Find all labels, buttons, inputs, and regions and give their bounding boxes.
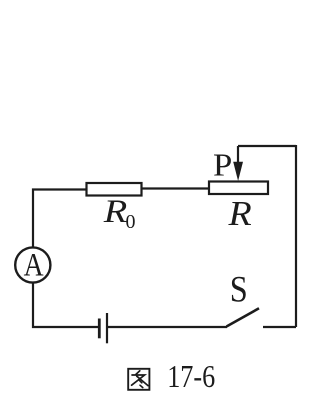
wire battery to switch	[108, 326, 227, 328]
resistor R0	[87, 183, 142, 196]
svg-text:S: S	[230, 270, 248, 311]
switch right contact	[263, 326, 296, 328]
wiper arrow P	[233, 146, 243, 181]
svg-text:R: R	[227, 194, 251, 233]
wire between R0 and R	[142, 187, 210, 189]
switch S blade	[227, 308, 260, 326]
rheostat R	[209, 182, 268, 195]
svg-text:A: A	[24, 247, 44, 283]
wire wiper to right vertical	[238, 145, 296, 147]
svg-text:R: R	[103, 194, 128, 230]
svg-text:P: P	[213, 147, 232, 182]
battery cell	[99, 313, 107, 343]
caption glyph 图	[128, 369, 149, 390]
wire right vertical	[295, 145, 297, 327]
wire ammeter to battery	[33, 283, 98, 328]
svg-text:17-6: 17-6	[167, 358, 215, 394]
ammeter A	[15, 247, 50, 283]
wire top-left corner	[33, 190, 87, 248]
svg-text:0: 0	[126, 211, 136, 233]
